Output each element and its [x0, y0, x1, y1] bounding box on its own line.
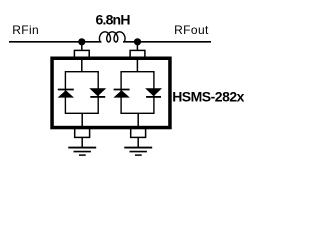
svg-text:RFin: RFin — [12, 23, 39, 37]
svg-text:RFout: RFout — [174, 23, 209, 37]
svg-text:6.8nH: 6.8nH — [96, 12, 131, 28]
svg-text:HSMS-282x: HSMS-282x — [172, 88, 244, 104]
